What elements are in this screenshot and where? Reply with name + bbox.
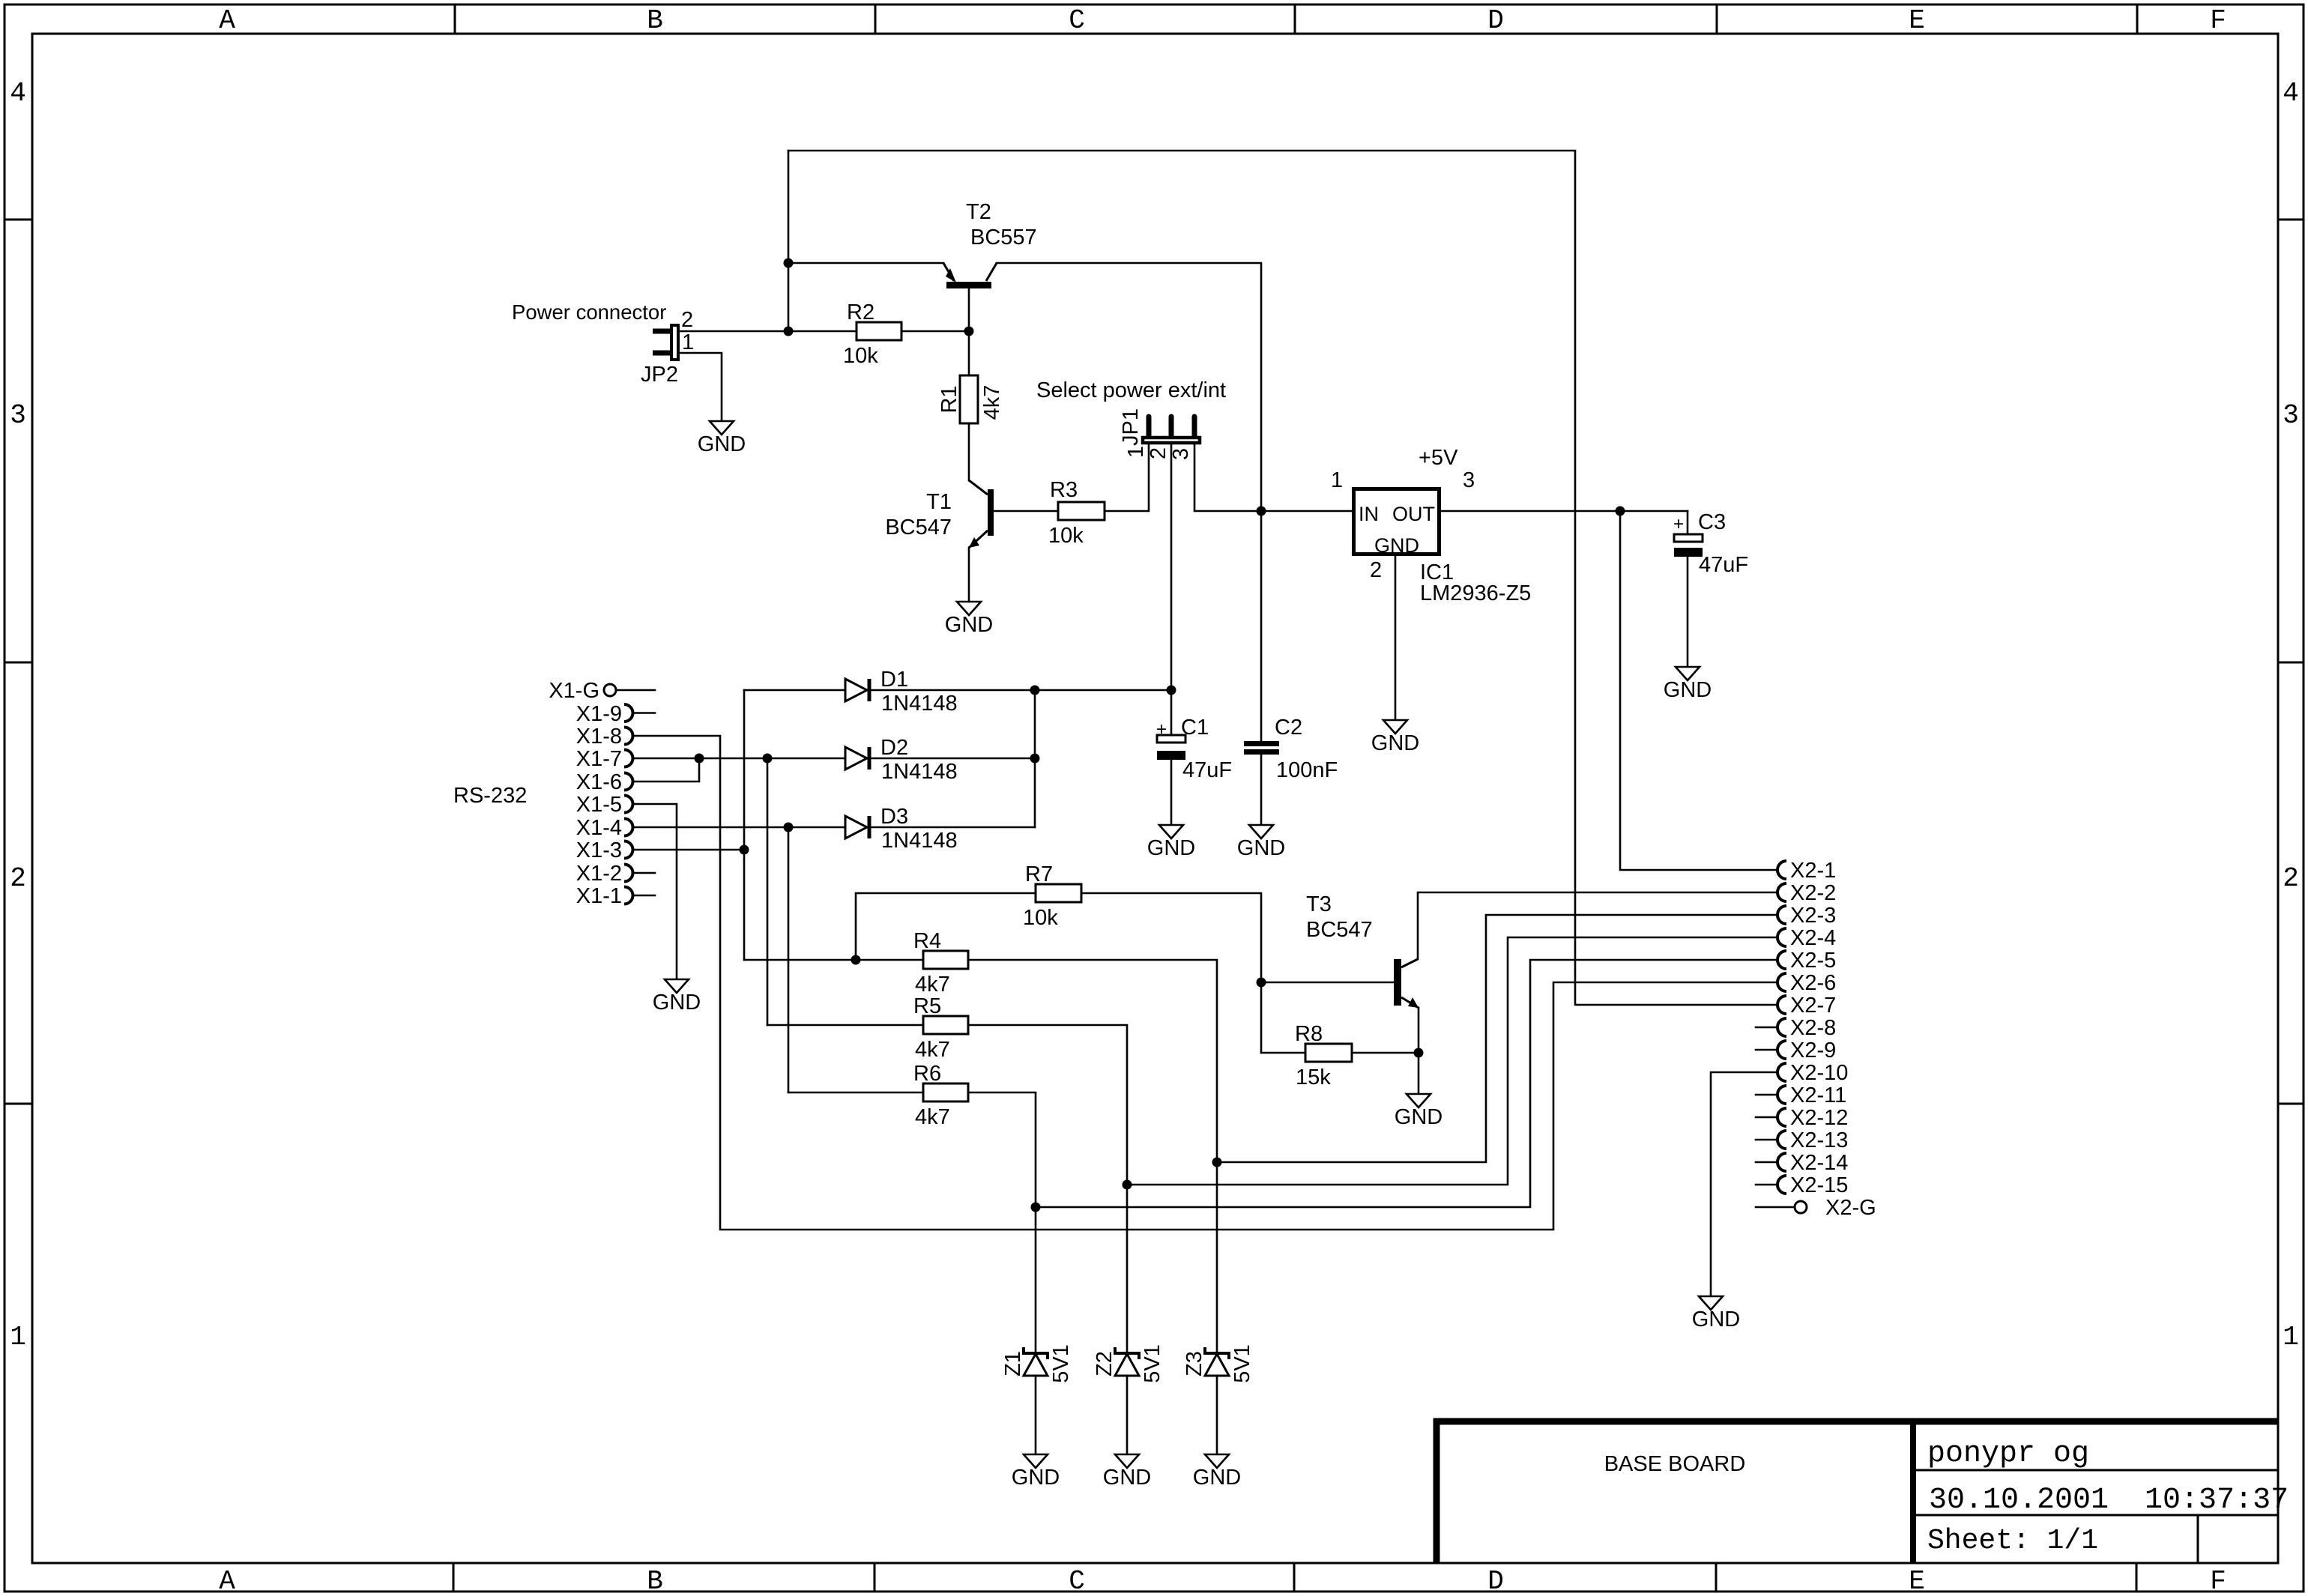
row tick 2|1 right (2278, 1103, 2304, 1105)
svg-text:X2-8: X2-8 (1790, 1016, 1836, 1040)
resistor R4 (923, 951, 968, 969)
svg-text:GND: GND (1664, 678, 1712, 702)
svg-text:4k7: 4k7 (915, 1105, 950, 1129)
wire JP2 pin1 to GND (679, 353, 722, 421)
wire D3 cathode to bus (871, 826, 1035, 829)
wire X2-12 stub (1756, 1116, 1777, 1119)
svg-text:1: 1 (10, 1322, 26, 1352)
svg-text:B: B (647, 5, 663, 36)
wire IC1 IN lead (1261, 510, 1352, 513)
row tick 4|3 left (4, 219, 32, 221)
wire JP1 pin3 to IC1 IN node (1194, 444, 1261, 511)
diode D3 1N4148 (845, 816, 867, 838)
svg-text:X1-8: X1-8 (576, 725, 622, 749)
svg-text:ponypr og: ponypr og (1927, 1437, 2089, 1471)
wire X1-8 to X2-6 long run (633, 736, 1777, 1230)
resistor R7 (1036, 884, 1081, 902)
node dot X1-3 join (740, 845, 749, 855)
wire C3 bottom to GND (1687, 557, 1689, 667)
title block outline left edge (1434, 1418, 1440, 1563)
svg-text:X2-13: X2-13 (1790, 1128, 1848, 1152)
connector pin X2-13 (1777, 1131, 1786, 1149)
svg-text:GND: GND (1374, 534, 1419, 557)
svg-text:D2: D2 (880, 736, 908, 760)
svg-text:JP2: JP2 (641, 363, 678, 387)
svg-text:X1-2: X1-2 (576, 862, 622, 886)
resistor R5 (923, 1016, 968, 1034)
svg-text:T1: T1 (926, 490, 952, 514)
svg-text:2: 2 (1370, 558, 1382, 582)
svg-text:X2-4: X2-4 (1790, 926, 1836, 950)
wire IC1 OUT rail (1441, 510, 1688, 513)
wire R6 net to X2-5 (1036, 960, 1777, 1207)
svg-text:X1-5: X1-5 (576, 793, 622, 817)
svg-text:B: B (647, 1566, 663, 1596)
svg-text:5V1: 5V1 (1230, 1344, 1254, 1383)
wire T1 emitter down (968, 548, 970, 602)
diode D2 1N4148 (845, 747, 867, 770)
wire OUT corner down to C3 (1687, 511, 1689, 534)
capacitor C1 47uF (polarized) (1157, 735, 1185, 743)
connector pin X2-8 (1777, 1018, 1786, 1036)
wire X2-10 to GND (1711, 1072, 1777, 1296)
svg-text:X2-5: X2-5 (1790, 949, 1836, 973)
svg-text:JP1: JP1 (1119, 408, 1143, 446)
svg-text:1: 1 (2283, 1322, 2299, 1352)
svg-text:+: + (1156, 719, 1167, 740)
wire JP1 pin2 down to C1 node (1170, 444, 1173, 735)
wire T1 base to R3 (994, 510, 1058, 513)
wire T2 collector run to IC1 IN junction (997, 263, 1261, 511)
svg-text:100nF: 100nF (1276, 758, 1338, 782)
wire X1-2 stub (633, 872, 655, 874)
svg-text:X1-7: X1-7 (576, 747, 622, 771)
svg-text:D1: D1 (880, 668, 908, 692)
column tick E|F top (2136, 4, 2139, 34)
svg-text:RS-232: RS-232 (453, 784, 527, 808)
node dot bus at D1 (1030, 686, 1040, 695)
transistor T1 BC547 (988, 489, 994, 536)
wire X1-5 to GND (633, 804, 677, 979)
ground symbol below X2-10 (1699, 1296, 1723, 1310)
node dot IN / C2 junction (1257, 507, 1266, 516)
svg-text:Sheet: 1/1: Sheet: 1/1 (1927, 1525, 2098, 1557)
svg-text:2: 2 (2283, 863, 2299, 894)
wire X1-6 up to X1-7 net (633, 758, 699, 782)
wire X1-4 to D3 anode (633, 826, 845, 829)
svg-text:1: 1 (1124, 446, 1148, 458)
svg-text:10k: 10k (1023, 906, 1058, 930)
wire IC1 GND pin down (1395, 556, 1397, 720)
zener diode Z1 5V1 (1024, 1347, 1048, 1359)
resistor R2 (857, 322, 901, 340)
svg-text:F: F (2210, 5, 2226, 36)
svg-text:Z1: Z1 (1001, 1351, 1025, 1376)
ground symbol below X1-5 (665, 979, 689, 993)
wire X2-11 stub (1756, 1094, 1777, 1096)
svg-text:R2: R2 (847, 300, 874, 324)
svg-text:R7: R7 (1025, 862, 1053, 886)
connector pin X2-5 (1777, 951, 1786, 969)
svg-text:BC547: BC547 (885, 516, 952, 539)
wire T3 emitter down to GND (1418, 1008, 1420, 1094)
voltage regulator IC1 box (1354, 489, 1440, 554)
svg-text:2: 2 (10, 863, 26, 894)
diode D1 1N4148 (744, 689, 845, 692)
column tick C|D top (1294, 4, 1296, 34)
wire R7 left lead up from R4 row (856, 893, 1036, 960)
wire down to Z2 (1126, 1185, 1129, 1353)
capacitor C3 47uF (polarized) (1674, 534, 1703, 542)
wire R8 right lead (1352, 1052, 1419, 1054)
connector pin X2-11 (1777, 1086, 1786, 1104)
svg-text:F: F (2210, 1566, 2226, 1596)
svg-text:Z2: Z2 (1093, 1351, 1117, 1376)
resistor R6 (923, 1083, 968, 1101)
svg-text:BC547: BC547 (1306, 918, 1373, 942)
column tick D|E top (1716, 4, 1718, 34)
wire R5 right lead to Z2 column (968, 1025, 1127, 1185)
svg-text:4: 4 (10, 78, 26, 109)
wire Z3 to GND (1216, 1376, 1218, 1454)
JP1 pin 3 stub (1192, 417, 1197, 436)
svg-text:X2-2: X2-2 (1790, 881, 1836, 905)
column tick D|E bottom (1715, 1563, 1718, 1592)
svg-text:47uF: 47uF (1699, 553, 1748, 577)
svg-text:D3: D3 (880, 805, 908, 829)
column tick A|B bottom (453, 1563, 455, 1592)
wire vertical from top rail down to JP2 pin2 row (788, 151, 790, 331)
svg-text:GND: GND (1237, 836, 1285, 860)
svg-text:X1-3: X1-3 (576, 838, 622, 862)
wire X2-9 stub (1756, 1049, 1777, 1051)
svg-text:GND: GND (1395, 1105, 1442, 1129)
svg-text:C1: C1 (1181, 716, 1209, 740)
node dot Z1 / X2-5 branch (1031, 1203, 1041, 1212)
svg-text:LM2936-Z5: LM2936-Z5 (1420, 581, 1531, 605)
svg-text:A: A (219, 1566, 235, 1596)
wire diode cathode bus vertical (1034, 690, 1036, 827)
title block outline top edge (1434, 1418, 2278, 1425)
wire R7 right lead to T3 base node (1081, 893, 1261, 1053)
row tick 3|2 right (2278, 662, 2304, 664)
svg-text:E: E (1909, 5, 1925, 36)
svg-text:3: 3 (10, 400, 26, 431)
svg-text:1N4148: 1N4148 (881, 829, 958, 853)
connector pin X2-12 (1777, 1108, 1786, 1126)
wire X2-8 stub (1756, 1027, 1777, 1029)
svg-text:BC557: BC557 (970, 226, 1037, 250)
svg-text:Power connector: Power connector (512, 300, 666, 324)
svg-text:X1-1: X1-1 (576, 884, 622, 908)
wire T3 base (1261, 982, 1394, 984)
jumper JP1 body (1143, 438, 1200, 443)
zener diode Z3 5V1 (1205, 1347, 1229, 1359)
svg-text:R3: R3 (1050, 478, 1078, 502)
JP2 pin 2 stub (653, 329, 670, 334)
connector pin X2-2 (1777, 883, 1786, 901)
svg-text:Select power ext/int: Select power ext/int (1036, 378, 1226, 402)
resistor R1 (vertical) (960, 375, 978, 423)
svg-text:R5: R5 (913, 994, 941, 1018)
node dot R6 tap (784, 823, 794, 832)
wire R8 left lead (1261, 1052, 1305, 1054)
ground symbol below C2 (1249, 825, 1273, 838)
wire X1-3 to D1 net (633, 849, 744, 851)
svg-text:E: E (1909, 1566, 1925, 1596)
JP1 pin 1 stub (1147, 417, 1152, 436)
svg-text:1N4148: 1N4148 (881, 760, 958, 784)
svg-text:X2-14: X2-14 (1790, 1151, 1848, 1175)
column tick E|F bottom (2136, 1563, 2138, 1592)
connector pin X2-14 (1777, 1153, 1786, 1171)
svg-text:GND: GND (1371, 731, 1419, 755)
svg-text:GND: GND (653, 991, 701, 1015)
transistor T3 BC547 (1394, 959, 1401, 1006)
wire D1 anode down to R4 row (743, 690, 746, 960)
svg-text:GND: GND (945, 613, 993, 637)
svg-text:D: D (1487, 5, 1504, 36)
connector pin X2-7 (1777, 996, 1786, 1014)
connector pin X2-6 (1777, 973, 1786, 991)
resistor R8 (1305, 1044, 1352, 1062)
svg-text:T2: T2 (966, 200, 991, 224)
svg-text:X1-4: X1-4 (576, 816, 622, 840)
wire D1 cathode to C1 node (871, 689, 1171, 692)
wire C1 bottom to GND (1170, 760, 1173, 825)
svg-text:T3: T3 (1306, 892, 1332, 916)
svg-text:10k: 10k (1048, 524, 1084, 548)
svg-text:2: 2 (1147, 447, 1170, 459)
svg-text:GND: GND (1103, 1466, 1151, 1490)
svg-text:IN: IN (1359, 503, 1379, 525)
wire +5V down to X2-1 (1620, 511, 1777, 870)
wire X2-13 stub (1756, 1139, 1777, 1141)
ground symbol below T3 (1407, 1094, 1431, 1107)
svg-text:X2-11: X2-11 (1790, 1083, 1846, 1107)
svg-text:2: 2 (681, 308, 693, 332)
ground symbol below IC1 (1383, 720, 1407, 734)
svg-text:A: A (219, 5, 235, 36)
connector pin X2-1 (1777, 861, 1786, 879)
connector JP2 body (671, 325, 678, 360)
svg-text:X1-G: X1-G (549, 679, 599, 703)
wire T2 emitter run (788, 262, 943, 265)
node dot Z2 / X2-4 branch (1123, 1180, 1132, 1190)
wire R4 left lead (744, 959, 923, 961)
wire D2 cathode to bus (871, 758, 1035, 760)
wire X1-4 net down to R6 (788, 827, 790, 1092)
svg-text:+: + (1673, 514, 1684, 534)
title block row line under date (1913, 1514, 2278, 1517)
svg-text:X2-3: X2-3 (1790, 904, 1836, 928)
row tick 2|1 left (4, 1103, 32, 1105)
wire Z1 to GND (1035, 1376, 1037, 1454)
svg-text:5V1: 5V1 (1049, 1344, 1073, 1383)
wire down to Z3 (1216, 1162, 1218, 1353)
svg-text:C3: C3 (1698, 510, 1726, 534)
title block sheet cell divider (2197, 1515, 2199, 1563)
column tick C|D bottom (1293, 1563, 1296, 1592)
svg-text:1: 1 (682, 330, 694, 354)
wire R4 net to X2-3 (1217, 915, 1777, 1162)
wire X1-9 stub (633, 712, 655, 714)
svg-text:1N4148: 1N4148 (881, 692, 958, 716)
svg-text:X2-G: X2-G (1825, 1196, 1876, 1220)
svg-text:X2-12: X2-12 (1790, 1106, 1848, 1130)
ground symbol below Z3 (1205, 1454, 1229, 1468)
svg-text:15k: 15k (1296, 1065, 1331, 1089)
svg-text:+5V: +5V (1419, 446, 1458, 470)
node dot R8 / emitter (1414, 1048, 1424, 1058)
svg-text:GND: GND (1012, 1466, 1060, 1490)
wire node to R1 top (968, 331, 970, 375)
row tick 4|3 right (2278, 219, 2304, 221)
ground symbol below JP2 (710, 421, 734, 435)
resistor R3 (1058, 502, 1105, 520)
svg-text:X2-15: X2-15 (1790, 1173, 1848, 1197)
ground symbol below Z1 (1024, 1454, 1048, 1468)
wire T3 collector to X2-2 (1418, 892, 1777, 959)
ground symbol below Z2 (1115, 1454, 1139, 1468)
wire X1-7 to D2 anode (633, 758, 845, 760)
ground symbol below C3 (1676, 667, 1700, 680)
connector pin X2-9 (1777, 1041, 1786, 1059)
svg-text:Z3: Z3 (1182, 1351, 1206, 1376)
wire X2-15 stub (1756, 1184, 1777, 1186)
wire X2-14 stub (1756, 1161, 1777, 1164)
svg-text:X2-10: X2-10 (1790, 1061, 1848, 1085)
wire R6 left lead (788, 1092, 923, 1094)
svg-text:47uF: 47uF (1182, 758, 1232, 782)
svg-text:OUT: OUT (1392, 503, 1435, 525)
title block row line under ponyprog (1913, 1469, 2278, 1472)
svg-text:1: 1 (1331, 468, 1343, 492)
wire JP2 pin2 to R2 (679, 330, 857, 333)
column tick B|C top (874, 4, 877, 34)
column tick B|C bottom (874, 1563, 876, 1592)
svg-text:X2-9: X2-9 (1790, 1039, 1836, 1063)
connector pin X2-10 (1777, 1063, 1786, 1081)
svg-text:C: C (1069, 1566, 1085, 1596)
node dot Z3 / X2-3 branch (1212, 1158, 1222, 1167)
wire X1-1 stub (633, 895, 655, 897)
svg-text:4k7: 4k7 (915, 1038, 950, 1062)
wire R5 left lead (767, 1024, 923, 1027)
svg-text:R8: R8 (1295, 1022, 1323, 1046)
svg-text:GND: GND (698, 432, 746, 456)
node dot R5 tap (763, 754, 773, 764)
connector pin X2-3 (1777, 906, 1786, 924)
JP1 pin 2 stub (1169, 417, 1174, 436)
transistor T2 BC557 (946, 282, 991, 288)
svg-text:3: 3 (1169, 448, 1193, 460)
row tick 3|2 left (4, 662, 32, 664)
wire down to Z1 (1035, 1207, 1037, 1353)
svg-text:5V1: 5V1 (1141, 1344, 1164, 1383)
title block internal divider (1910, 1421, 1916, 1563)
wire Z2 to GND (1126, 1376, 1129, 1454)
wire R3 to JP1 pin1 (1105, 444, 1149, 511)
svg-text:10k: 10k (843, 344, 878, 368)
svg-text:R1: R1 (937, 385, 961, 413)
wire R6 right lead to Z1 column (968, 1092, 1036, 1207)
svg-text:X2-1: X2-1 (1790, 859, 1836, 883)
svg-text:GND: GND (1193, 1466, 1241, 1490)
wire +V top rail from node above JP2 across to X2-7 feed (788, 151, 1777, 1005)
column tick A|B top (454, 4, 456, 34)
JP2 pin 1 stub (653, 351, 670, 356)
wire junction down to C2 (1260, 511, 1263, 741)
svg-text:GND: GND (1147, 836, 1195, 860)
svg-text:C: C (1069, 5, 1085, 36)
node dot JP2 pin2 rail (784, 327, 794, 336)
node dot R7 tap on R4 row (851, 955, 861, 965)
svg-text:4: 4 (2283, 78, 2299, 109)
zener diode Z2 5V1 (1115, 1347, 1139, 1359)
node dot top rail / T2 emitter (784, 259, 794, 268)
connector pin X2-15 (1777, 1176, 1786, 1194)
wire X1-G stub (616, 689, 655, 692)
svg-text:R4: R4 (913, 929, 941, 953)
wire R2 to T2 base node (901, 330, 969, 333)
node dot T3 base tap (1257, 978, 1266, 988)
wire R5 net to X2-4 (1127, 937, 1777, 1185)
node dot OUT to X2-1 feed (1616, 507, 1625, 516)
wire X2-G stub (1756, 1206, 1795, 1209)
ground symbol below T1 (957, 602, 981, 615)
node dot bus at D2 (1030, 754, 1040, 764)
svg-text:R6: R6 (913, 1062, 941, 1086)
node dot T2 base / R2 / R1 (964, 327, 974, 336)
wire T2 base down to node (968, 288, 970, 331)
wire R4 right lead to Z3 column (968, 960, 1217, 1162)
wire C2 bottom to GND (1260, 755, 1263, 825)
wire R1 bottom to T1 collector (968, 423, 970, 480)
svg-text:GND: GND (1692, 1308, 1740, 1331)
ground symbol below C1 (1159, 825, 1183, 838)
svg-text:3: 3 (2283, 400, 2299, 431)
connector pin X2-4 (1777, 928, 1786, 946)
svg-text:X2-7: X2-7 (1790, 994, 1836, 1018)
svg-text:C2: C2 (1275, 716, 1302, 740)
node dot C1 feed junction (1167, 686, 1176, 695)
svg-text:X1-6: X1-6 (576, 770, 622, 794)
connector pin X2-G (1795, 1201, 1807, 1213)
svg-text:X1-9: X1-9 (576, 702, 622, 726)
capacitor C2 100nF (1244, 741, 1279, 746)
svg-text:X2-6: X2-6 (1790, 971, 1836, 995)
svg-text:4k7: 4k7 (915, 973, 950, 997)
node dot X1-6 tap (695, 754, 704, 764)
svg-text:3: 3 (1463, 468, 1475, 492)
svg-text:4k7: 4k7 (980, 385, 1004, 420)
svg-text:BASE BOARD: BASE BOARD (1604, 1452, 1746, 1476)
wire X1-7 net down to R5 (767, 758, 769, 1025)
svg-text:D: D (1487, 1566, 1504, 1596)
svg-text:30.10.2001 10:37:37: 30.10.2001 10:37:37 (1929, 1484, 2289, 1517)
